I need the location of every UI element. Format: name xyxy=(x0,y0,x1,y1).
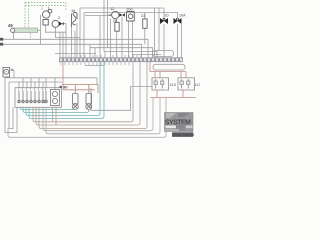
svg-text:COD. 106673: COD. 106673 xyxy=(174,133,195,137)
svg-text:113: 113 xyxy=(170,82,177,87)
svg-text:10: 10 xyxy=(165,14,169,18)
svg-text:12: 12 xyxy=(110,6,115,11)
svg-text:M: M xyxy=(72,8,75,13)
svg-text:23: 23 xyxy=(141,13,146,18)
svg-text:90: 90 xyxy=(63,85,68,90)
svg-text:28: 28 xyxy=(113,18,118,23)
svg-text:100: 100 xyxy=(126,7,133,12)
svg-text:10A: 10A xyxy=(179,14,186,18)
svg-text:113A: 113A xyxy=(194,82,200,87)
svg-text:49: 49 xyxy=(8,23,13,28)
